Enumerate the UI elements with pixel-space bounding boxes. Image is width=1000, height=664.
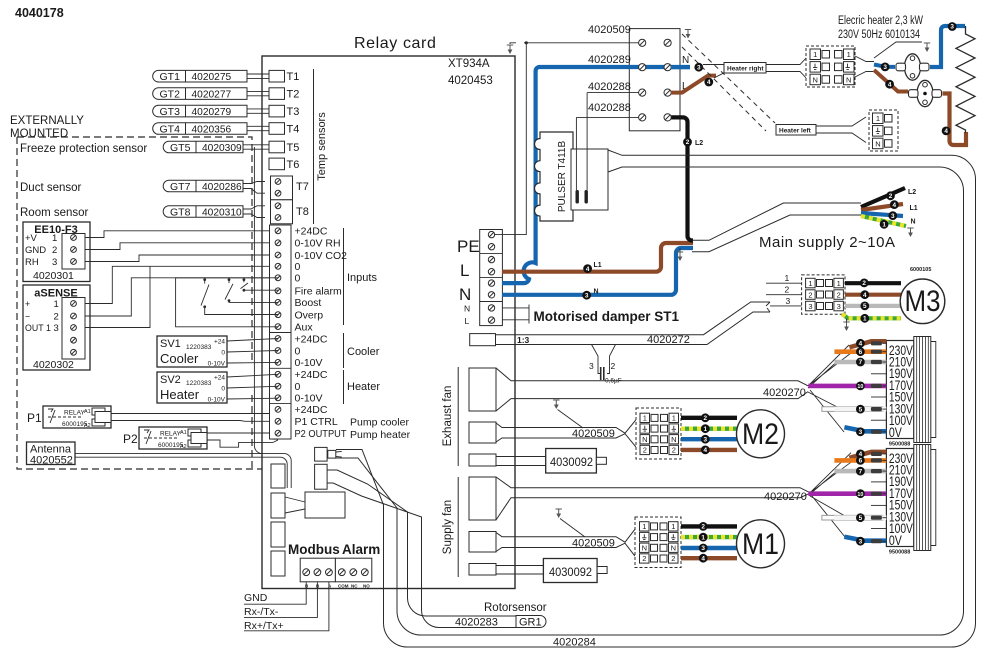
M3 connector bbox=[802, 275, 845, 314]
svg-text:+24DC: +24DC bbox=[295, 404, 328, 416]
svg-text:1: 1 bbox=[876, 114, 880, 123]
svg-text:1220383: 1220383 bbox=[186, 380, 212, 387]
ground at block bbox=[685, 30, 691, 36]
svg-text:3: 3 bbox=[52, 257, 57, 268]
svg-text:4020509: 4020509 bbox=[572, 538, 615, 550]
svg-text:Exhaust fan: Exhaust fan bbox=[442, 386, 454, 447]
svg-text:L: L bbox=[465, 316, 470, 326]
svg-text:GT1: GT1 bbox=[160, 71, 181, 83]
leader lines bbox=[524, 42, 639, 44]
svg-text:Heater right: Heater right bbox=[727, 66, 764, 73]
relay card outline bbox=[262, 56, 515, 589]
svg-text:A1: A1 bbox=[180, 430, 187, 436]
svg-text:6: 6 bbox=[859, 458, 863, 465]
svg-text:Pump cooler: Pump cooler bbox=[350, 417, 409, 429]
main supply wires L2 L1 N PE bbox=[861, 188, 905, 207]
heater feed terminal block bbox=[629, 29, 680, 131]
svg-text:4020309: 4020309 bbox=[202, 143, 242, 154]
svg-text:Main supply 2~10A: Main supply 2~10A bbox=[759, 234, 896, 251]
svg-text:+24DC: +24DC bbox=[295, 333, 328, 345]
svg-text:3: 3 bbox=[859, 429, 863, 436]
valve SV2 bbox=[157, 372, 227, 403]
pump cooler connector bbox=[315, 447, 328, 461]
ground supply bbox=[556, 509, 562, 515]
svg-text:Pump heater: Pump heater bbox=[350, 429, 411, 441]
svg-text:RH: RH bbox=[25, 257, 39, 268]
svg-text:GT8: GT8 bbox=[170, 206, 191, 218]
svg-text:2: 2 bbox=[611, 361, 616, 371]
svg-text:0: 0 bbox=[221, 350, 225, 357]
exhaust fan small box bbox=[469, 454, 496, 466]
svg-text:2: 2 bbox=[704, 415, 708, 422]
heater right label bbox=[724, 63, 766, 74]
svg-text:3: 3 bbox=[589, 361, 594, 371]
svg-text:2: 2 bbox=[671, 554, 675, 563]
svg-text:3: 3 bbox=[701, 545, 705, 552]
sensor module aSENSE bbox=[23, 285, 90, 370]
svg-text:Freeze protection sensor: Freeze protection sensor bbox=[20, 143, 147, 155]
svg-text:Heater left: Heater left bbox=[779, 128, 812, 135]
svg-text:N: N bbox=[671, 544, 676, 553]
svg-text:N: N bbox=[642, 544, 647, 553]
svg-text:4030092: 4030092 bbox=[549, 565, 592, 579]
svg-text:4: 4 bbox=[704, 447, 708, 454]
svg-text:3: 3 bbox=[891, 213, 895, 220]
svg-text:M3: M3 bbox=[905, 285, 941, 318]
antenna cable bbox=[75, 454, 291, 488]
PE L N terminal block bbox=[480, 230, 503, 326]
svg-text:4020270: 4020270 bbox=[763, 387, 806, 399]
svg-text:4020453: 4020453 bbox=[448, 75, 493, 87]
svg-text:L1: L1 bbox=[910, 205, 918, 212]
svg-text:4020288: 4020288 bbox=[588, 81, 631, 93]
svg-text:T6: T6 bbox=[287, 159, 300, 171]
svg-text:1220383: 1220383 bbox=[186, 344, 212, 351]
exhaust fan big box bbox=[469, 368, 496, 411]
svg-text:3: 3 bbox=[950, 24, 954, 31]
svg-text:+: + bbox=[25, 299, 30, 309]
svg-text:GND: GND bbox=[25, 245, 46, 256]
svg-text:P1: P1 bbox=[27, 411, 42, 425]
M3 wires bbox=[845, 281, 901, 285]
svg-text:4: 4 bbox=[944, 128, 948, 135]
svg-text:4040178: 4040178 bbox=[15, 6, 64, 20]
svg-text:4020310: 4020310 bbox=[202, 207, 242, 218]
svg-text:2: 2 bbox=[785, 285, 790, 295]
split to thermostats bbox=[874, 65, 895, 67]
svg-text:Heater: Heater bbox=[160, 387, 200, 402]
svg-text:4020277: 4020277 bbox=[192, 90, 232, 101]
svg-text:1: 1 bbox=[863, 316, 867, 323]
svg-text:GT2: GT2 bbox=[160, 89, 181, 101]
relay card input terminal strip bbox=[270, 225, 292, 439]
svg-text:Rx-/Tx-: Rx-/Tx- bbox=[244, 606, 279, 618]
terminals T1-T6 bbox=[269, 70, 285, 82]
heater right connector bbox=[806, 46, 855, 87]
svg-text:0-10V: 0-10V bbox=[295, 357, 323, 369]
svg-text:Duct sensor: Duct sensor bbox=[20, 182, 82, 194]
svg-text:4020286: 4020286 bbox=[202, 182, 242, 193]
wires EE10-F3 and aSENSE to inputs bbox=[85, 231, 269, 238]
svg-text:2: 2 bbox=[672, 446, 676, 455]
thermostat lower bbox=[917, 80, 933, 106]
heater left connector bbox=[869, 110, 898, 151]
svg-text:1: 1 bbox=[808, 279, 812, 288]
svg-text:Boost: Boost bbox=[295, 297, 322, 309]
cable 4020270 supply bbox=[496, 477, 810, 520]
pulser T411B bbox=[535, 132, 574, 221]
cable to 4030092 exhaust bbox=[496, 457, 546, 466]
supply fan big box bbox=[469, 477, 496, 520]
svg-text:SV2: SV2 bbox=[160, 374, 181, 386]
svg-text:GT3: GT3 bbox=[160, 106, 181, 118]
heater right cable bbox=[671, 65, 690, 69]
svg-text:XT934A: XT934A bbox=[448, 58, 490, 70]
sensor GT8 4020310 bbox=[163, 206, 243, 219]
svg-text:GT7: GT7 bbox=[170, 181, 191, 193]
wire black L2 bbox=[668, 117, 693, 240]
svg-text:10: 10 bbox=[857, 384, 863, 390]
svg-text:1: 1 bbox=[704, 426, 708, 433]
svg-text:Alarm: Alarm bbox=[342, 542, 380, 557]
svg-text:N: N bbox=[642, 435, 647, 444]
svg-text:SV1: SV1 bbox=[160, 338, 181, 350]
M1 wires bbox=[681, 524, 737, 528]
svg-text:Cooler: Cooler bbox=[160, 351, 199, 366]
svg-text:2: 2 bbox=[54, 312, 59, 323]
svg-text:T3: T3 bbox=[287, 106, 300, 118]
svg-text:OUT 1: OUT 1 bbox=[25, 323, 51, 333]
svg-text:GR1: GR1 bbox=[519, 617, 542, 629]
shield wire bbox=[254, 147, 262, 454]
svg-text:Supply fan: Supply fan bbox=[442, 500, 454, 554]
svg-text:+24DC: +24DC bbox=[295, 369, 328, 381]
cable 4020272 bbox=[496, 302, 771, 345]
svg-text:P2 OUTPUT: P2 OUTPUT bbox=[295, 428, 348, 440]
svg-text:0-10V RH: 0-10V RH bbox=[295, 238, 341, 250]
svg-text:MOUNTED: MOUNTED bbox=[10, 128, 68, 140]
blue wire to heating element bbox=[930, 57, 942, 71]
svg-text:4020356: 4020356 bbox=[192, 124, 232, 135]
svg-text:0: 0 bbox=[295, 273, 301, 285]
svg-text:1: 1 bbox=[642, 522, 646, 531]
svg-text:4020509: 4020509 bbox=[588, 24, 631, 36]
svg-text:Overp: Overp bbox=[295, 310, 324, 322]
wire blue supply N bbox=[502, 248, 693, 295]
svg-text:P2: P2 bbox=[123, 432, 138, 446]
svg-text:3: 3 bbox=[808, 302, 812, 311]
wires P1 to card bbox=[111, 414, 269, 422]
svg-text:2: 2 bbox=[862, 280, 866, 287]
svg-text:1: 1 bbox=[52, 233, 57, 244]
svg-text:1: 1 bbox=[672, 414, 676, 423]
sensor GT4 4020356 bbox=[153, 123, 247, 136]
svg-text:3: 3 bbox=[859, 538, 863, 545]
ground to PE riser bbox=[494, 43, 526, 235]
exhaust fan bracket bbox=[457, 367, 459, 466]
svg-text:2: 2 bbox=[808, 290, 812, 299]
pump heater connector bbox=[315, 464, 328, 489]
heater bracket bbox=[343, 370, 345, 404]
svg-text:+24: +24 bbox=[214, 375, 225, 382]
heater left dashed cables bbox=[682, 34, 775, 131]
svg-text:+24: +24 bbox=[214, 339, 225, 346]
brown wire to heating element bottom bbox=[943, 94, 967, 146]
svg-text:Heater: Heater bbox=[347, 381, 380, 393]
sensor GT5 4020309 bbox=[163, 141, 243, 154]
motor M2 bbox=[737, 410, 785, 458]
svg-text:NC: NC bbox=[351, 584, 358, 589]
svg-text:Rotorsensor: Rotorsensor bbox=[484, 602, 547, 614]
svg-text:2: 2 bbox=[837, 290, 841, 299]
cable 4020509 supply bbox=[496, 529, 635, 556]
svg-text:1: 1 bbox=[643, 414, 647, 423]
internal module box bbox=[305, 492, 345, 518]
svg-text:1: 1 bbox=[701, 534, 705, 541]
svg-text:4020279: 4020279 bbox=[192, 107, 232, 118]
M2 connector bbox=[636, 408, 681, 459]
svg-text:1: 1 bbox=[882, 222, 886, 229]
svg-text:1: 1 bbox=[837, 279, 841, 288]
svg-text:Room sensor: Room sensor bbox=[20, 207, 89, 219]
svg-text:2: 2 bbox=[52, 245, 57, 256]
svg-text:COM: COM bbox=[338, 584, 349, 589]
modbus terminal block bbox=[300, 558, 335, 582]
ground at supply joint bbox=[679, 248, 681, 252]
svg-text:Aux: Aux bbox=[295, 321, 314, 333]
input switches bbox=[176, 278, 278, 327]
svg-text:4: 4 bbox=[707, 79, 711, 86]
svg-text:0-10V: 0-10V bbox=[208, 397, 226, 404]
heater left label bbox=[776, 125, 816, 136]
svg-text:Motorised damper ST1: Motorised damper ST1 bbox=[534, 309, 680, 324]
cable 4020284 big loop bbox=[336, 150, 976, 647]
sensor GT7 4020286 bbox=[163, 180, 243, 193]
voltage selector exhaust bbox=[886, 341, 913, 439]
svg-text:Elecric heater 2,3 kW: Elecric heater 2,3 kW bbox=[838, 15, 923, 27]
svg-text:3: 3 bbox=[883, 64, 887, 71]
cable 4020509 exhaust bbox=[496, 420, 636, 447]
svg-text:230V 50Hz 6010134: 230V 50Hz 6010134 bbox=[838, 29, 920, 41]
M2 wires bbox=[681, 416, 737, 420]
svg-text:N: N bbox=[594, 289, 599, 296]
svg-text:N: N bbox=[911, 219, 916, 226]
svg-text:N: N bbox=[846, 75, 851, 84]
svg-text:4020289: 4020289 bbox=[588, 54, 631, 66]
svg-text:PULSER T411B: PULSER T411B bbox=[557, 141, 568, 213]
svg-text:L2: L2 bbox=[695, 140, 703, 147]
svg-text:4020302: 4020302 bbox=[33, 359, 74, 371]
svg-text:9500088: 9500088 bbox=[889, 442, 910, 448]
valve SV1 bbox=[157, 336, 227, 367]
svg-text:4: 4 bbox=[701, 555, 705, 562]
svg-text:0: 0 bbox=[295, 381, 301, 393]
svg-text:4: 4 bbox=[859, 341, 863, 348]
svg-text:NO: NO bbox=[363, 584, 370, 589]
svg-text:RELAY: RELAY bbox=[160, 431, 181, 438]
supply fan small box bbox=[469, 564, 496, 576]
svg-text:T1: T1 bbox=[287, 71, 300, 83]
svg-text:T2: T2 bbox=[287, 89, 300, 101]
svg-text:7: 7 bbox=[859, 359, 863, 366]
svg-text:T7: T7 bbox=[296, 181, 309, 193]
svg-text:PE: PE bbox=[457, 237, 480, 256]
svg-text:GT4: GT4 bbox=[160, 123, 181, 135]
svg-text:Rx+/Tx+: Rx+/Tx+ bbox=[244, 620, 284, 632]
svg-text:4: 4 bbox=[888, 81, 892, 88]
svg-text:0: 0 bbox=[221, 386, 225, 393]
svg-text:6: 6 bbox=[859, 349, 863, 356]
svg-text:+V: +V bbox=[25, 233, 38, 244]
svg-text:Temp sensors: Temp sensors bbox=[316, 112, 328, 181]
svg-text:T5: T5 bbox=[287, 142, 300, 154]
svg-text:N: N bbox=[682, 55, 689, 66]
svg-text:N: N bbox=[875, 139, 880, 148]
sensor module EE10-F3 bbox=[23, 222, 90, 282]
exhaust fan mid box bbox=[469, 422, 496, 443]
svg-text:N: N bbox=[464, 304, 470, 314]
svg-text:T4: T4 bbox=[287, 124, 300, 136]
svg-text:GND: GND bbox=[244, 592, 268, 604]
box 4030092 exhaust bbox=[546, 449, 597, 474]
cable 4020270 exhaust bbox=[496, 368, 808, 411]
box 4030092 supply bbox=[543, 559, 597, 583]
svg-text:2: 2 bbox=[643, 446, 647, 455]
svg-text:0-10V CO2: 0-10V CO2 bbox=[295, 250, 348, 262]
svg-text:1: 1 bbox=[671, 522, 675, 531]
svg-text:3: 3 bbox=[704, 436, 708, 443]
svg-text:A2: A2 bbox=[180, 444, 187, 450]
svg-text:4020275: 4020275 bbox=[192, 72, 232, 83]
M1 connector bbox=[635, 517, 681, 568]
fan-out lines exhaust voltages bbox=[808, 345, 851, 432]
voltage selector supply bbox=[886, 449, 913, 547]
damper output box bbox=[470, 334, 496, 346]
svg-text:4020552: 4020552 bbox=[30, 455, 73, 467]
temp sensors bracket bbox=[313, 69, 315, 224]
svg-text:RELAY: RELAY bbox=[64, 410, 85, 417]
cable to 4030092 supply bbox=[496, 566, 543, 575]
svg-text:M2: M2 bbox=[742, 418, 779, 451]
svg-text:L2: L2 bbox=[908, 189, 916, 196]
motor M3 bbox=[900, 279, 945, 324]
svg-text:2: 2 bbox=[889, 193, 893, 200]
svg-text:1:3: 1:3 bbox=[517, 335, 530, 345]
svg-text:4020272: 4020272 bbox=[647, 334, 690, 346]
svg-text:5: 5 bbox=[859, 515, 863, 522]
svg-text:Inputs: Inputs bbox=[347, 272, 377, 284]
sensor GT2 4020277 bbox=[153, 88, 247, 101]
cooler bracket bbox=[343, 333, 345, 368]
internal connector column bbox=[271, 464, 285, 488]
svg-text:A2: A2 bbox=[84, 423, 91, 429]
svg-text:A1: A1 bbox=[84, 409, 91, 415]
pulser feed wires bbox=[576, 93, 587, 190]
svg-text:5: 5 bbox=[863, 303, 867, 310]
svg-text:4020288: 4020288 bbox=[588, 102, 631, 114]
svg-text:3: 3 bbox=[54, 323, 59, 334]
svg-text:4020270: 4020270 bbox=[764, 491, 807, 503]
svg-text:Modbus: Modbus bbox=[288, 542, 340, 557]
svg-text:Fire alarm: Fire alarm bbox=[295, 286, 343, 298]
svg-text:N: N bbox=[812, 75, 817, 84]
svg-text:0V: 0V bbox=[889, 533, 902, 548]
svg-text:M1: M1 bbox=[742, 528, 779, 561]
svg-text:4: 4 bbox=[586, 266, 590, 273]
svg-text:4020301: 4020301 bbox=[33, 270, 74, 282]
pulser output box bbox=[571, 149, 608, 210]
svg-text:3: 3 bbox=[697, 64, 701, 71]
svg-text:3: 3 bbox=[837, 302, 841, 311]
ground lead at heater bbox=[874, 42, 922, 58]
heating element zigzag bbox=[956, 26, 975, 133]
motor M1 bbox=[737, 520, 785, 568]
svg-text:9500088: 9500088 bbox=[889, 550, 910, 556]
fan-out lines supply voltages bbox=[810, 453, 853, 537]
svg-text:T8: T8 bbox=[296, 206, 309, 218]
svg-text:0-10V: 0-10V bbox=[208, 361, 226, 368]
wire brown heater L bbox=[502, 243, 693, 272]
svg-text:4: 4 bbox=[893, 202, 897, 209]
svg-text:7: 7 bbox=[859, 468, 863, 475]
svg-text:Cooler: Cooler bbox=[347, 346, 380, 358]
motorised damper ST1 label bbox=[502, 305, 529, 324]
svg-text:10: 10 bbox=[857, 492, 863, 498]
wire blue heater N bbox=[502, 67, 690, 283]
svg-text:0-10V: 0-10V bbox=[295, 393, 323, 405]
pump heater cable bbox=[327, 470, 516, 616]
svg-text:−: − bbox=[25, 312, 30, 322]
svg-text:L: L bbox=[460, 261, 469, 280]
svg-text:GT5: GT5 bbox=[170, 142, 191, 154]
svg-text:1: 1 bbox=[813, 50, 817, 59]
svg-text:0V: 0V bbox=[889, 425, 902, 440]
svg-text:1: 1 bbox=[785, 273, 790, 283]
terminals T7 T8 blocks bbox=[271, 176, 293, 200]
svg-text:4020509: 4020509 bbox=[572, 428, 615, 440]
sensor GT3 4020279 bbox=[153, 105, 247, 118]
svg-text:4: 4 bbox=[863, 292, 867, 299]
svg-text:3: 3 bbox=[585, 292, 589, 299]
svg-text:Relay card: Relay card bbox=[354, 35, 436, 52]
svg-text:N: N bbox=[459, 285, 471, 304]
svg-text:2: 2 bbox=[686, 139, 690, 146]
sensor GT1 4020275 bbox=[153, 70, 247, 83]
svg-text:6000105: 6000105 bbox=[910, 267, 931, 273]
svg-text:+24DC: +24DC bbox=[295, 226, 328, 238]
svg-text:4030092: 4030092 bbox=[550, 455, 593, 469]
svg-text:EXTERNALLY: EXTERNALLY bbox=[10, 115, 84, 127]
wires P2 to card bbox=[207, 433, 278, 447]
thermostat upper bbox=[905, 54, 921, 80]
svg-text:5: 5 bbox=[859, 406, 863, 413]
antenna box bbox=[27, 442, 76, 465]
svg-text:1: 1 bbox=[54, 299, 59, 310]
dashed boundary box bbox=[17, 137, 262, 469]
svg-text:0: 0 bbox=[295, 345, 301, 357]
svg-text:1: 1 bbox=[847, 50, 851, 59]
svg-text:N: N bbox=[671, 435, 676, 444]
svg-text:L1: L1 bbox=[594, 262, 602, 269]
supply fan bracket bbox=[457, 477, 459, 577]
inputs bracket bbox=[343, 228, 345, 325]
svg-text:4020284: 4020284 bbox=[553, 637, 596, 649]
supply fan mid box bbox=[469, 532, 496, 553]
svg-text:4020283: 4020283 bbox=[455, 617, 498, 629]
main supply cable bbox=[692, 203, 861, 252]
svg-text:2: 2 bbox=[701, 524, 705, 531]
svg-text:0: 0 bbox=[295, 261, 301, 273]
